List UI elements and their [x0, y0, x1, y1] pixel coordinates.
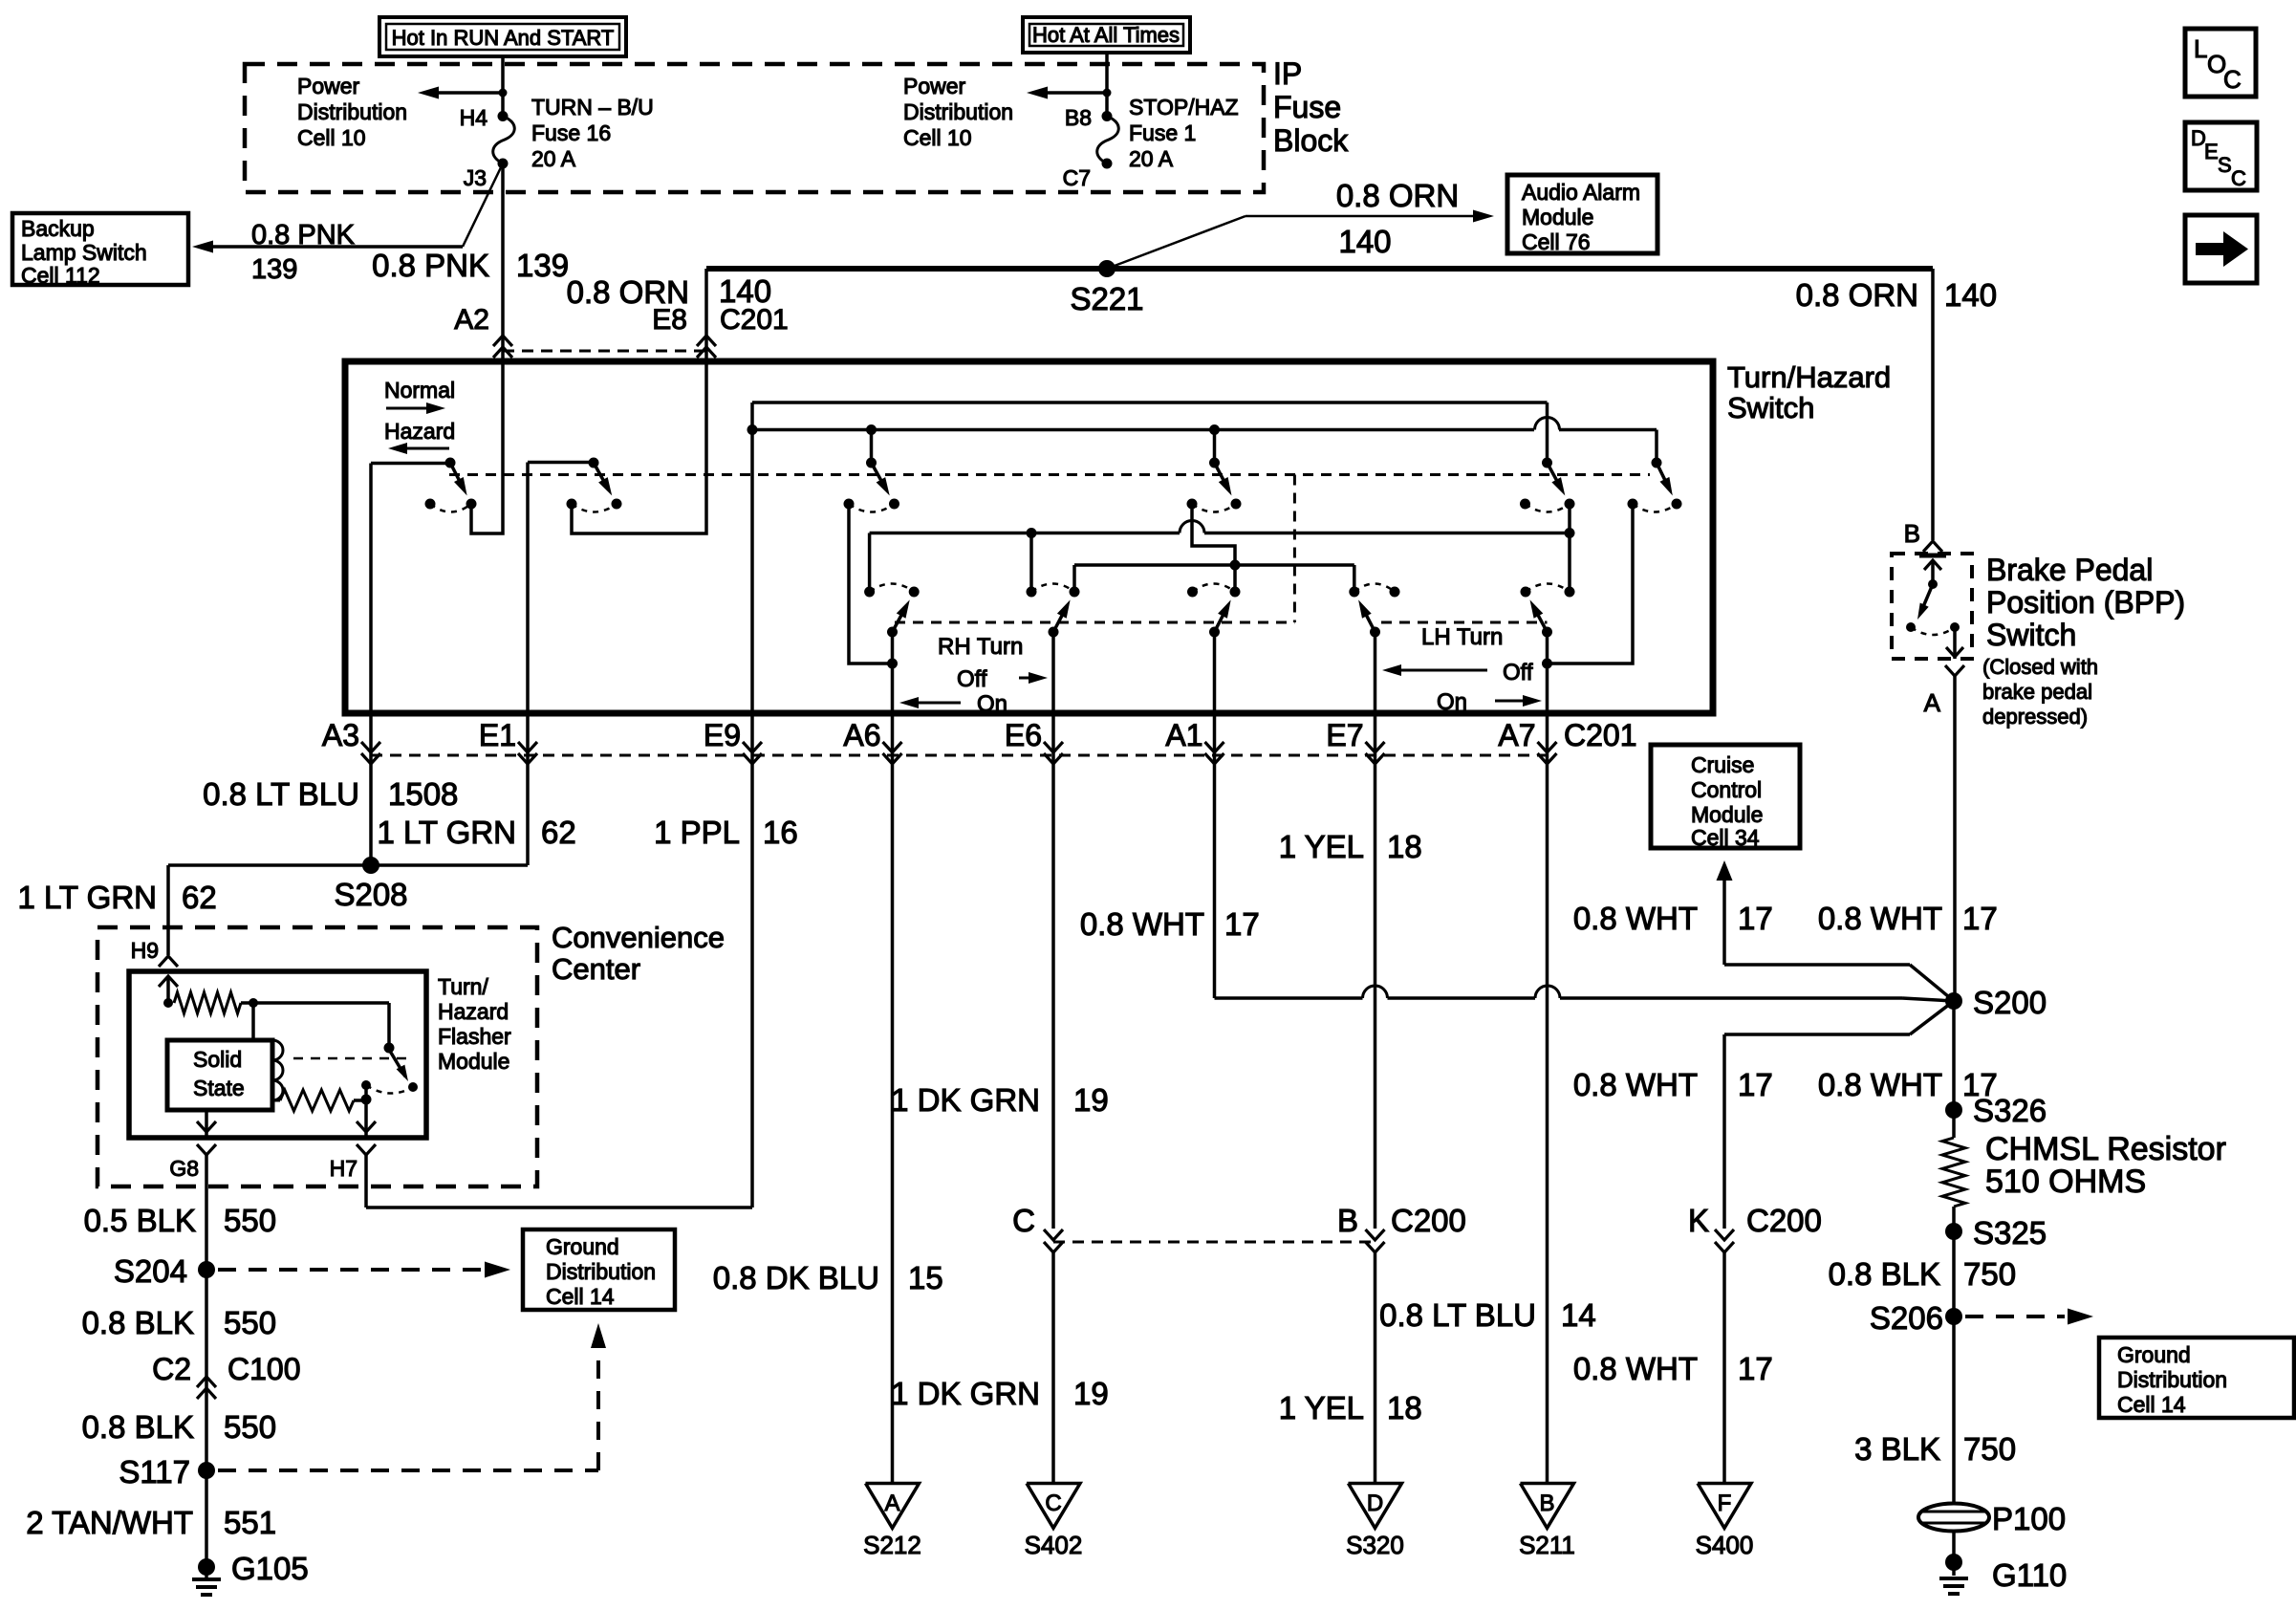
svg-text:A1: A1 — [1165, 718, 1202, 752]
svg-text:depressed): depressed) — [1982, 705, 2088, 729]
svg-text:Power: Power — [903, 74, 966, 98]
svg-text:Lamp Switch: Lamp Switch — [21, 240, 147, 265]
svg-text:C: C — [2231, 166, 2246, 190]
svg-text:0.8 WHT: 0.8 WHT — [1573, 1067, 1698, 1102]
svg-text:Turn/: Turn/ — [438, 974, 488, 999]
svg-text:C201: C201 — [1564, 718, 1637, 752]
svg-text:140: 140 — [1944, 277, 1997, 313]
svg-text:750: 750 — [1963, 1431, 2016, 1467]
svg-text:S212: S212 — [863, 1531, 921, 1559]
svg-text:Power: Power — [297, 74, 360, 98]
svg-text:F: F — [1718, 1490, 1732, 1516]
svg-text:Flasher: Flasher — [438, 1024, 511, 1049]
svg-text:C201: C201 — [720, 304, 789, 336]
svg-text:0.8 LT BLU: 0.8 LT BLU — [1379, 1297, 1536, 1333]
svg-text:Hazard: Hazard — [384, 419, 455, 444]
svg-text:140: 140 — [1338, 224, 1391, 259]
svg-text:0.8 PNK: 0.8 PNK — [372, 248, 489, 283]
svg-text:18: 18 — [1387, 829, 1422, 864]
svg-text:0.8 WHT: 0.8 WHT — [1573, 901, 1698, 936]
svg-text:TURN – B/U: TURN – B/U — [531, 95, 654, 120]
svg-text:RH Turn: RH Turn — [938, 634, 1023, 660]
svg-text:1 LT GRN: 1 LT GRN — [18, 880, 158, 915]
svg-text:139: 139 — [516, 248, 569, 283]
svg-text:S325: S325 — [1973, 1215, 2047, 1251]
svg-text:A6: A6 — [843, 718, 880, 752]
svg-text:62: 62 — [182, 880, 217, 915]
svg-text:Off: Off — [957, 666, 987, 692]
svg-text:S206: S206 — [1870, 1300, 1943, 1336]
svg-text:20 A: 20 A — [531, 146, 576, 171]
svg-text:S320: S320 — [1346, 1531, 1404, 1559]
svg-text:551: 551 — [224, 1505, 276, 1540]
svg-text:0.8 WHT: 0.8 WHT — [1818, 901, 1942, 936]
svg-text:C7: C7 — [1063, 165, 1091, 190]
svg-text:14: 14 — [1561, 1297, 1596, 1333]
svg-text:0.8 LT BLU: 0.8 LT BLU — [203, 776, 359, 812]
svg-text:17: 17 — [1962, 901, 1998, 936]
svg-text:20 A: 20 A — [1129, 146, 1174, 171]
svg-text:Cell 76: Cell 76 — [1522, 229, 1591, 254]
svg-text:Block: Block — [1273, 123, 1349, 158]
svg-text:139: 139 — [251, 254, 297, 285]
svg-text:S402: S402 — [1025, 1531, 1083, 1559]
svg-text:L: L — [2194, 34, 2207, 63]
svg-text:E1: E1 — [479, 718, 516, 752]
svg-text:0.8 BLK: 0.8 BLK — [1829, 1256, 1940, 1292]
svg-text:brake pedal: brake pedal — [1982, 680, 2092, 704]
svg-text:0.8 BLK: 0.8 BLK — [82, 1305, 194, 1340]
svg-text:Cruise: Cruise — [1691, 752, 1754, 777]
svg-text:Audio Alarm: Audio Alarm — [1522, 180, 1640, 205]
svg-text:C: C — [2223, 65, 2242, 94]
svg-text:16: 16 — [763, 815, 798, 850]
svg-text:Distribution: Distribution — [546, 1259, 656, 1284]
svg-text:C200: C200 — [1391, 1203, 1466, 1238]
svg-text:1508: 1508 — [388, 776, 458, 812]
svg-text:Cell 14: Cell 14 — [546, 1284, 615, 1309]
svg-text:S221: S221 — [1070, 281, 1143, 316]
svg-text:Off: Off — [1503, 660, 1533, 685]
svg-text:C: C — [1045, 1490, 1061, 1516]
svg-text:CHMSL Resistor: CHMSL Resistor — [1985, 1131, 2226, 1167]
svg-text:Center: Center — [552, 952, 640, 986]
svg-text:B8: B8 — [1065, 105, 1092, 130]
svg-text:18: 18 — [1387, 1390, 1422, 1425]
svg-text:Backup: Backup — [21, 216, 95, 241]
svg-text:S117: S117 — [119, 1454, 190, 1490]
svg-text:Cell 112: Cell 112 — [21, 263, 100, 288]
svg-text:Fuse 16: Fuse 16 — [531, 120, 611, 145]
svg-text:C100: C100 — [227, 1352, 301, 1386]
svg-text:0.8 ORN: 0.8 ORN — [567, 274, 689, 310]
svg-text:S: S — [2218, 153, 2232, 177]
svg-text:S208: S208 — [334, 877, 407, 912]
svg-text:STOP/HAZ: STOP/HAZ — [1129, 95, 1239, 120]
svg-text:Hot In RUN And START: Hot In RUN And START — [392, 26, 615, 50]
svg-text:Distribution: Distribution — [2117, 1367, 2227, 1392]
svg-text:H7: H7 — [330, 1156, 357, 1181]
svg-text:Module: Module — [1691, 802, 1763, 827]
svg-text:Turn/Hazard: Turn/Hazard — [1727, 360, 1891, 394]
svg-text:510 OHMS: 510 OHMS — [1985, 1164, 2146, 1200]
svg-text:E6: E6 — [1005, 718, 1042, 752]
svg-text:S204: S204 — [114, 1253, 187, 1289]
svg-text:550: 550 — [224, 1305, 276, 1340]
svg-text:A2: A2 — [454, 304, 489, 336]
svg-text:Position (BPP): Position (BPP) — [1986, 585, 2185, 620]
svg-text:19: 19 — [1073, 1082, 1109, 1118]
svg-text:P100: P100 — [1992, 1501, 2066, 1536]
svg-text:17: 17 — [1738, 1067, 1773, 1102]
svg-text:H4: H4 — [460, 105, 488, 130]
svg-text:E7: E7 — [1326, 718, 1363, 752]
svg-text:Distribution: Distribution — [903, 99, 1013, 124]
svg-text:Cell 10: Cell 10 — [903, 125, 972, 150]
svg-text:C200: C200 — [1746, 1203, 1822, 1238]
svg-text:0.8 ORN: 0.8 ORN — [1796, 277, 1918, 313]
svg-text:Module: Module — [1522, 205, 1593, 229]
svg-text:Ground: Ground — [2117, 1342, 2191, 1367]
svg-text:15: 15 — [908, 1260, 943, 1295]
svg-text:0.8 ORN: 0.8 ORN — [1336, 178, 1459, 213]
svg-text:G110: G110 — [1992, 1557, 2067, 1593]
svg-text:0.8 PNK: 0.8 PNK — [251, 220, 356, 250]
svg-text:Cell 10: Cell 10 — [297, 125, 366, 150]
svg-text:Module: Module — [438, 1049, 509, 1074]
svg-text:Switch: Switch — [1986, 618, 2076, 652]
svg-text:H9: H9 — [131, 938, 159, 963]
svg-text:B: B — [1337, 1203, 1358, 1238]
svg-text:B: B — [1904, 519, 1920, 548]
svg-text:IP: IP — [1273, 56, 1302, 91]
svg-text:G105: G105 — [231, 1551, 309, 1586]
svg-text:S211: S211 — [1519, 1531, 1575, 1559]
svg-text:Normal: Normal — [384, 378, 455, 402]
svg-text:K: K — [1688, 1203, 1709, 1238]
svg-text:550: 550 — [224, 1203, 276, 1238]
svg-text:Fuse 1: Fuse 1 — [1129, 120, 1196, 145]
svg-text:0.5 BLK: 0.5 BLK — [84, 1203, 196, 1238]
svg-text:Cell 14: Cell 14 — [2117, 1392, 2186, 1417]
svg-text:0.8 WHT: 0.8 WHT — [1080, 906, 1204, 942]
svg-text:Switch: Switch — [1727, 391, 1814, 424]
svg-text:1 DK GRN: 1 DK GRN — [891, 1376, 1040, 1411]
svg-text:550: 550 — [224, 1409, 276, 1445]
svg-text:A: A — [1924, 688, 1941, 717]
svg-text:E: E — [2204, 140, 2219, 163]
svg-text:1 YEL: 1 YEL — [1279, 1390, 1364, 1425]
svg-text:Hot At All Times: Hot At All Times — [1032, 23, 1180, 47]
svg-text:D: D — [1367, 1490, 1383, 1516]
svg-text:Ground: Ground — [546, 1234, 619, 1259]
svg-text:17: 17 — [1738, 901, 1773, 936]
svg-text:G8: G8 — [169, 1156, 199, 1181]
svg-text:1 YEL: 1 YEL — [1279, 829, 1364, 864]
svg-text:J3: J3 — [464, 165, 487, 190]
svg-text:17: 17 — [1738, 1351, 1773, 1386]
svg-text:S326: S326 — [1973, 1093, 2047, 1128]
svg-text:E9: E9 — [704, 718, 741, 752]
svg-text:Control: Control — [1691, 777, 1762, 802]
svg-text:0.8 WHT: 0.8 WHT — [1573, 1351, 1698, 1386]
svg-text:2 TAN/WHT: 2 TAN/WHT — [26, 1505, 193, 1540]
svg-text:19: 19 — [1073, 1376, 1109, 1411]
svg-text:1 PPL: 1 PPL — [654, 815, 740, 850]
svg-text:On: On — [1437, 689, 1467, 715]
svg-text:0.8 WHT: 0.8 WHT — [1818, 1067, 1942, 1102]
svg-text:Hazard: Hazard — [438, 999, 509, 1024]
svg-text:1 LT GRN: 1 LT GRN — [378, 815, 517, 850]
svg-text:Convenience: Convenience — [552, 921, 725, 954]
svg-text:Brake Pedal: Brake Pedal — [1986, 553, 2153, 587]
svg-text:C: C — [1012, 1203, 1035, 1238]
svg-text:LH Turn: LH Turn — [1421, 624, 1503, 650]
svg-text:S400: S400 — [1696, 1531, 1754, 1559]
svg-text:750: 750 — [1963, 1256, 2016, 1292]
svg-text:On: On — [977, 691, 1007, 717]
svg-text:(Closed with: (Closed with — [1982, 655, 2098, 679]
svg-text:C2: C2 — [152, 1352, 191, 1386]
svg-text:1 DK GRN: 1 DK GRN — [891, 1082, 1040, 1118]
svg-text:62: 62 — [541, 815, 576, 850]
svg-text:State: State — [193, 1076, 245, 1100]
svg-text:S200: S200 — [1973, 985, 2047, 1020]
svg-text:Solid: Solid — [193, 1047, 242, 1072]
svg-text:A: A — [884, 1490, 899, 1516]
svg-text:A3: A3 — [322, 718, 359, 752]
svg-text:Cell 34: Cell 34 — [1691, 825, 1760, 850]
svg-text:A7: A7 — [1498, 718, 1535, 752]
svg-text:B: B — [1539, 1490, 1554, 1516]
svg-text:0.8 DK BLU: 0.8 DK BLU — [713, 1260, 879, 1295]
svg-text:Distribution: Distribution — [297, 99, 407, 124]
svg-text:0.8 BLK: 0.8 BLK — [82, 1409, 194, 1445]
svg-text:3 BLK: 3 BLK — [1854, 1431, 1940, 1467]
svg-text:Fuse: Fuse — [1273, 90, 1341, 124]
svg-text:17: 17 — [1224, 906, 1260, 942]
